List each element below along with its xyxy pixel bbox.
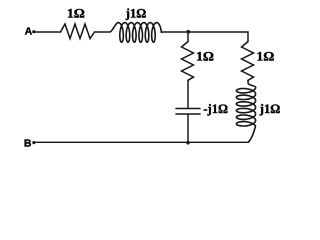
wire R1 to L1 [95, 31, 111, 33]
bottom wire [34, 141, 249, 143]
svg-text:-j1Ω: -j1Ω [203, 102, 228, 116]
resistor R3 [242, 42, 254, 81]
svg-text:A: A [25, 26, 33, 38]
terminal dot B [32, 141, 35, 144]
wire L1 to junction [161, 31, 188, 33]
resistor R2 [182, 42, 194, 81]
wire junction to top-right corner [188, 32, 248, 42]
inductor L1 [110, 23, 161, 43]
svg-text:j1Ω: j1Ω [259, 102, 280, 116]
terminal dot A [32, 30, 35, 33]
svg-text:B: B [24, 138, 32, 150]
wire junction down to R2 [187, 32, 189, 42]
wire A to R1 [34, 31, 61, 33]
wire R2 to C1 [187, 80, 189, 108]
junction dot top [187, 30, 191, 34]
junction dot bottom [186, 141, 190, 145]
svg-text:1Ω: 1Ω [67, 7, 85, 21]
inductor L2 tail [248, 126, 255, 142]
inductor L2 [236, 80, 255, 126]
resistor R1 [61, 24, 95, 39]
wire C1 to bottom [187, 114, 189, 142]
capacitor C1 top plate [176, 108, 200, 110]
svg-text:1Ω: 1Ω [196, 49, 214, 63]
svg-text:1Ω: 1Ω [256, 49, 274, 63]
svg-text:j1Ω: j1Ω [125, 6, 146, 20]
capacitor C1 bottom plate [176, 113, 200, 115]
